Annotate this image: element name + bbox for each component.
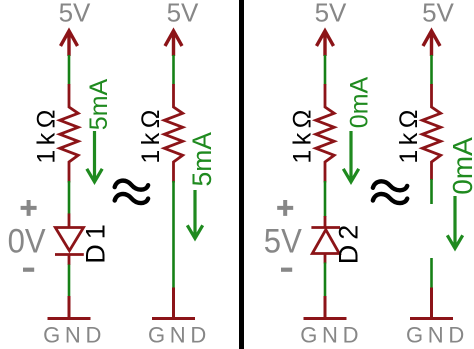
current arrow (col 2) bbox=[187, 190, 202, 238]
svg-text:0V: 0V bbox=[8, 223, 46, 261]
resistor R3 bbox=[316, 84, 334, 183]
svg-text:5V: 5V bbox=[315, 0, 347, 28]
svg-text:D2: D2 bbox=[334, 220, 364, 265]
svg-text:GND: GND bbox=[300, 322, 363, 347]
plus sign (col 1) bbox=[21, 200, 37, 216]
wire 5V to R2 bbox=[172, 55, 175, 85]
svg-text:GND: GND bbox=[406, 322, 469, 347]
svg-text:5V: 5V bbox=[59, 0, 91, 28]
divider bbox=[239, 0, 244, 349]
svg-text:1kΩ: 1kΩ bbox=[288, 105, 316, 164]
svg-text:1kΩ: 1kΩ bbox=[395, 105, 423, 164]
minus sign (col 1) bbox=[23, 268, 34, 272]
diode D2 (reversed) bbox=[311, 216, 340, 264]
ground symbol (col 4) bbox=[410, 288, 453, 319]
wire R2 to GND bbox=[172, 181, 175, 289]
wire 5V to R3 bbox=[324, 55, 327, 85]
resistor R1 bbox=[60, 84, 78, 183]
wire R3 to D2 bbox=[324, 181, 327, 217]
resistor R4 bbox=[422, 84, 440, 180]
svg-text:5V: 5V bbox=[264, 223, 302, 261]
power symbol 5V arrow (col 4) bbox=[423, 31, 440, 56]
svg-text:5V: 5V bbox=[167, 0, 199, 28]
svg-text:5mA: 5mA bbox=[85, 78, 113, 130]
svg-text:D1: D1 bbox=[81, 219, 111, 264]
wire D1 to GND bbox=[68, 265, 71, 298]
svg-text:1kΩ: 1kΩ bbox=[32, 105, 60, 164]
wire 5V to R4 bbox=[430, 55, 433, 85]
svg-text:0mA: 0mA bbox=[346, 76, 374, 128]
wire 5V to R1 bbox=[68, 55, 71, 85]
current arrow (col 1) bbox=[87, 131, 102, 182]
svg-text:1kΩ: 1kΩ bbox=[137, 105, 165, 164]
wire stub above GND (open circuit bottom) bbox=[430, 258, 433, 289]
svg-text:GND: GND bbox=[148, 322, 211, 347]
wire D2 to GND bbox=[324, 263, 327, 298]
ground symbol (col 3) bbox=[304, 296, 347, 319]
plus sign (col 3) bbox=[277, 200, 293, 216]
equivalence squiggle (right) bbox=[373, 181, 407, 203]
svg-text:5V: 5V bbox=[422, 0, 454, 28]
svg-text:5mA: 5mA bbox=[187, 132, 217, 187]
resistor R2 bbox=[164, 84, 182, 183]
wire R1 to D1 bbox=[68, 181, 71, 214]
wire stub below R4 (open circuit top) bbox=[430, 179, 433, 204]
diode D1 bbox=[55, 214, 84, 266]
power symbol 5V arrow (col 3) bbox=[317, 31, 334, 56]
minus sign (col 3) bbox=[281, 268, 292, 272]
ground symbol (col 1) bbox=[48, 296, 91, 319]
current arrow (col 4) bbox=[447, 196, 462, 248]
equivalence squiggle (left) bbox=[115, 181, 148, 203]
svg-text:GND: GND bbox=[43, 322, 106, 347]
ground symbol (col 2) bbox=[152, 288, 195, 319]
power symbol 5V arrow (col 1) bbox=[61, 31, 78, 56]
power symbol 5V arrow (col 2) bbox=[165, 31, 182, 56]
svg-text:0mA: 0mA bbox=[447, 137, 474, 195]
current arrow (col 3) bbox=[343, 131, 358, 182]
